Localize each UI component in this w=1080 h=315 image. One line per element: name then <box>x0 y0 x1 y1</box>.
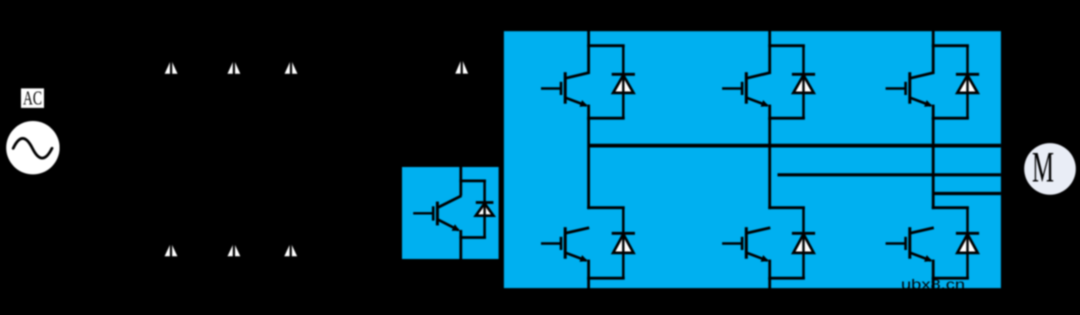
motor M1 <box>1024 143 1076 195</box>
brake diode D8 <box>476 203 494 218</box>
watermark text <box>901 277 965 292</box>
wire leg B upper <box>768 26 805 209</box>
wire leg B lower <box>768 208 805 293</box>
IGBT QC2 <box>886 227 934 262</box>
diode DA1 <box>612 74 635 94</box>
rectifier diode D6 <box>284 239 297 261</box>
brake IGBT Q7 <box>413 196 461 231</box>
IGBT QB2 <box>722 227 770 262</box>
brake diode D7 <box>455 55 468 78</box>
brake chopper wiring <box>459 160 486 264</box>
svg-text:ubx8.cn: ubx8.cn <box>901 277 965 292</box>
wire phase W <box>933 192 1001 195</box>
wire AC to rectifier <box>60 146 120 148</box>
IGBT QC1 <box>886 72 934 107</box>
brake chopper block <box>402 167 499 259</box>
diode DC1 <box>956 74 979 94</box>
IGBT QB1 <box>722 72 770 107</box>
rectifier diode D2 <box>228 56 241 78</box>
wire phase V <box>778 173 1001 176</box>
AC source V1 <box>6 121 59 174</box>
diode DB1 <box>792 74 815 94</box>
svg-text:M: M <box>1032 144 1054 191</box>
rectifier diode D4 <box>165 239 178 261</box>
wire leg C upper <box>932 26 969 209</box>
wire leg A upper <box>587 26 625 209</box>
wire phase U <box>589 144 1001 148</box>
rectifier diode D3 <box>285 56 298 78</box>
IGBT QA2 <box>541 227 589 262</box>
rectifier diode D5 <box>228 239 241 261</box>
rectifier diode D1 <box>165 56 178 78</box>
inverter block <box>504 31 1001 288</box>
diode DC2 <box>956 233 979 254</box>
diode DB2 <box>792 233 815 254</box>
IGBT QA1 <box>541 72 589 107</box>
wire leg A lower <box>587 208 625 293</box>
AC source label <box>21 88 44 110</box>
svg-text:AC: AC <box>23 88 42 110</box>
diode DA2 <box>612 233 635 254</box>
wire leg C lower <box>932 208 969 293</box>
